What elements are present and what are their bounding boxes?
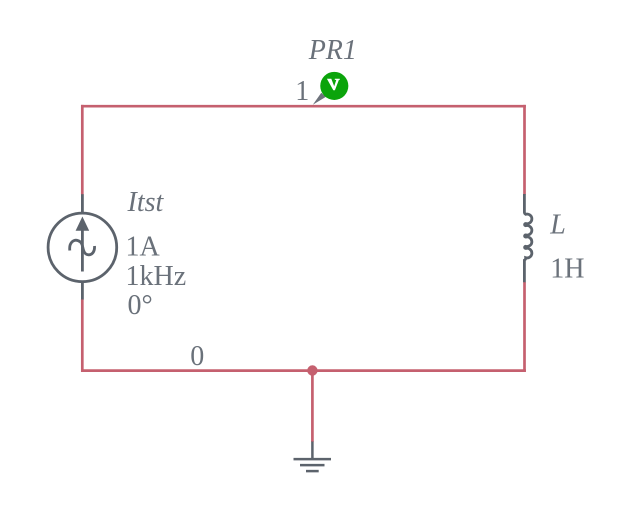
svg-text:1kHz: 1kHz (126, 261, 187, 292)
svg-text:L: L (549, 209, 566, 240)
svg-text:1H: 1H (550, 254, 584, 285)
svg-text:PR1: PR1 (308, 35, 357, 66)
svg-text:1A: 1A (126, 232, 161, 263)
svg-text:0: 0 (190, 341, 204, 372)
svg-text:1: 1 (295, 76, 309, 107)
svg-text:Itst: Itst (127, 187, 165, 218)
svg-text:0°: 0° (128, 290, 153, 321)
